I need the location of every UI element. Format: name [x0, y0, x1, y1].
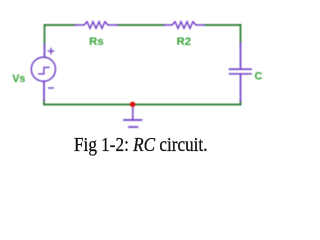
svg-text:Rs: Rs [89, 36, 103, 48]
resistor R2 [164, 22, 205, 29]
voltage source Vs [31, 44, 55, 100]
svg-text:Fig 1-2: RC circuit.: Fig 1-2: RC circuit. [74, 134, 208, 156]
svg-text:Vs: Vs [12, 73, 25, 85]
ground [124, 105, 142, 127]
wire top-middle horizontal [118, 24, 165, 26]
wire top-right horizontal [205, 24, 241, 26]
svg-text:R2: R2 [177, 36, 191, 48]
junction node [130, 102, 135, 107]
wire left vertical upper [44, 25, 46, 44]
wire right vertical upper [240, 25, 242, 43]
wire bottom horizontal [45, 104, 241, 106]
wire top-left horizontal [45, 24, 76, 26]
wire left vertical lower [43, 100, 45, 105]
svg-text:C: C [255, 70, 263, 82]
wire right vertical lower [240, 101, 242, 105]
capacitor C [230, 43, 252, 101]
resistor Rs [75, 22, 118, 29]
